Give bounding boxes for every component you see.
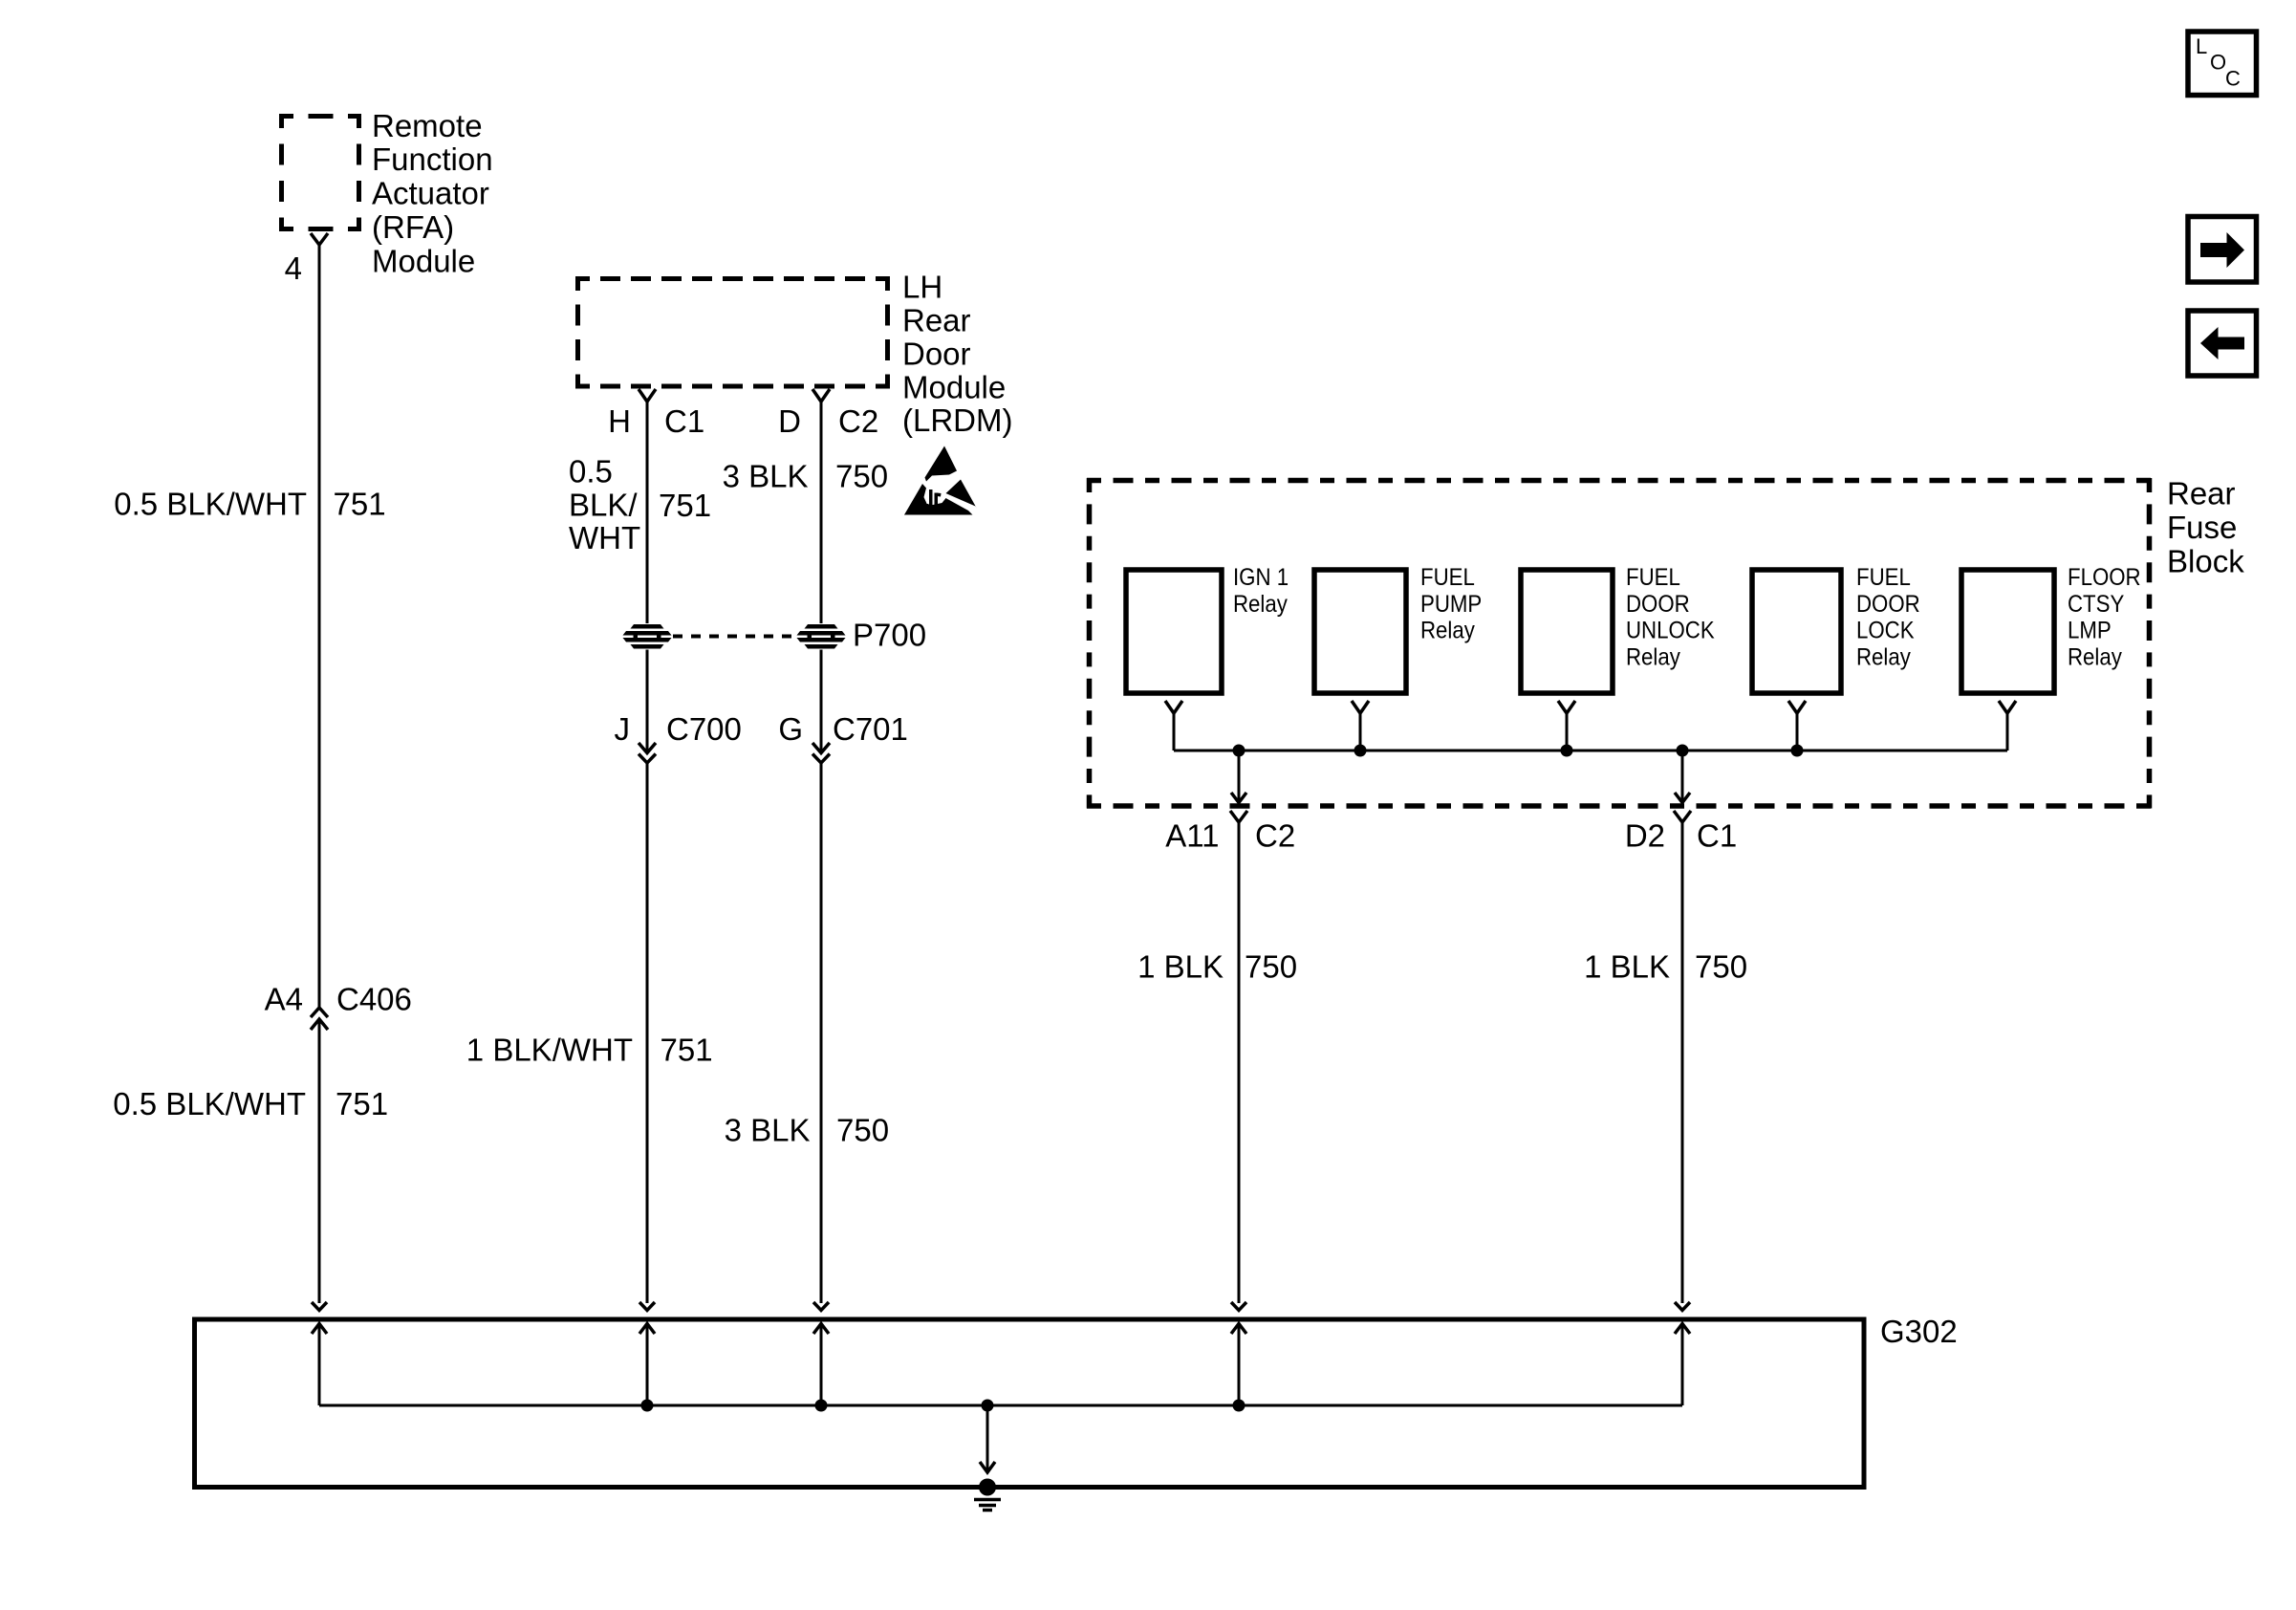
FLOOR CTSY LMP Relay label xyxy=(2068,565,2141,671)
svg-text:C2: C2 xyxy=(1255,818,1295,854)
svg-text:Relay: Relay xyxy=(1626,644,1680,670)
relay box FUEL DOOR UNLOCK xyxy=(1521,570,1613,693)
svg-text:D: D xyxy=(778,403,801,439)
forward arrow xyxy=(2200,232,2244,268)
svg-text:751: 751 xyxy=(336,1086,388,1121)
connector Y at LRDM pin D xyxy=(812,389,830,402)
svg-text:750: 750 xyxy=(835,459,888,494)
svg-text:C2: C2 xyxy=(838,403,878,439)
connector C406 inline: lower half arrow xyxy=(311,1019,328,1030)
svg-text:751: 751 xyxy=(659,488,711,523)
junction dot fuel door unlock xyxy=(1561,745,1573,757)
G302 internal riser 2 with up arrow xyxy=(646,1323,649,1405)
junction dot A11 drop xyxy=(1233,745,1245,757)
connector C700 inline: arrow down xyxy=(639,743,656,753)
LRDM label xyxy=(902,270,1012,439)
svg-text:D2: D2 xyxy=(1625,818,1665,854)
IGN 1 Relay label xyxy=(1233,565,1289,618)
svg-text:Relay: Relay xyxy=(1233,592,1288,618)
FUEL DOOR UNLOCK Relay label xyxy=(1626,565,1715,671)
svg-text:G: G xyxy=(778,711,803,747)
svg-text:1 BLK: 1 BLK xyxy=(1584,949,1670,985)
connector C700 inline: Y lower xyxy=(639,754,656,764)
svg-text:Door: Door xyxy=(902,336,971,371)
stem wire xyxy=(2006,713,2009,751)
junction dot fuel pump xyxy=(1354,745,1367,757)
ground drop wire with arrow xyxy=(986,1405,989,1472)
stem wire xyxy=(1796,713,1799,751)
svg-text:LH: LH xyxy=(902,270,942,305)
svg-text:750: 750 xyxy=(1245,949,1297,985)
G302 internal bus xyxy=(319,1404,1682,1407)
back arrow xyxy=(2200,327,2244,359)
junction dot D2 drop xyxy=(1677,745,1689,757)
svg-text:L: L xyxy=(2196,34,2207,58)
junction dot ground drop xyxy=(982,1400,994,1412)
G302 internal riser 4 with up arrow xyxy=(1238,1323,1241,1405)
connector Y at LRDM pin H xyxy=(639,389,656,402)
svg-text:Remote: Remote xyxy=(372,108,483,143)
svg-text:0.5 BLK/WHT: 0.5 BLK/WHT xyxy=(113,1086,306,1121)
svg-text:750: 750 xyxy=(836,1113,889,1148)
svg-text:C700: C700 xyxy=(666,711,742,747)
relay pin Y FUEL DOOR LOCK xyxy=(1788,701,1806,713)
svg-text:UNLOCK: UNLOCK xyxy=(1626,618,1715,643)
svg-text:Rear: Rear xyxy=(902,303,971,338)
G302 entry chevron wire 750 A11 xyxy=(1231,1302,1246,1311)
dashed link between grommets xyxy=(673,635,797,639)
svg-text:H: H xyxy=(608,403,631,439)
relay pin Y FLOOR CTSY LMP xyxy=(1999,701,2016,713)
wire 750 from D2 xyxy=(1681,822,1684,1303)
LOC icon box xyxy=(2188,32,2257,96)
svg-text:1 BLK: 1 BLK xyxy=(1137,949,1224,985)
LOC letters xyxy=(2196,34,2241,91)
svg-text:C1: C1 xyxy=(664,403,704,439)
svg-text:A4: A4 xyxy=(265,982,303,1017)
G302 internal riser 3 with up arrow xyxy=(820,1323,823,1405)
connector C701 inline: Y lower xyxy=(812,754,830,764)
svg-text:DOOR: DOOR xyxy=(1626,592,1690,618)
relay box IGN 1 xyxy=(1126,570,1222,693)
svg-text:WHT: WHT xyxy=(569,520,640,555)
svg-text:(LRDM): (LRDM) xyxy=(902,402,1012,438)
RFA module label xyxy=(372,108,493,279)
G302 entry chevron wire 751 LRDM xyxy=(639,1302,655,1311)
G302 internal riser 1 with up arrow xyxy=(318,1323,321,1405)
ground bus inside fuse block xyxy=(1174,750,2007,752)
svg-text:0.5: 0.5 xyxy=(569,454,613,490)
svg-text:A11: A11 xyxy=(1165,818,1219,854)
svg-text:C: C xyxy=(2225,67,2241,91)
svg-text:Rear: Rear xyxy=(2167,476,2236,511)
G302 ground box xyxy=(195,1319,1865,1488)
G302 entry chevron wire 751 RFA xyxy=(312,1302,327,1311)
Rear Fuse Block dashed box xyxy=(1087,478,2152,809)
G302 entry chevron wire 750 D2 xyxy=(1675,1302,1690,1311)
wire 750 from A11 xyxy=(1238,822,1241,1303)
connector C701 inline: arrow down xyxy=(812,743,830,753)
junction dot riser 3 xyxy=(815,1400,828,1412)
FUEL PUMP Relay label xyxy=(1420,565,1482,644)
svg-text:FUEL: FUEL xyxy=(1420,565,1475,591)
drop wire to D2 with arrow xyxy=(1681,751,1684,802)
drop wire to A11 with arrow xyxy=(1238,751,1241,802)
svg-text:1 BLK/WHT: 1 BLK/WHT xyxy=(466,1033,633,1068)
wire 750 below C701 xyxy=(820,763,823,1303)
svg-text:Module: Module xyxy=(372,243,475,278)
svg-text:PUMP: PUMP xyxy=(1420,592,1482,618)
svg-text:Module: Module xyxy=(902,369,1006,404)
svg-text:Relay: Relay xyxy=(1420,618,1475,643)
connector Y at RFA pin 4 xyxy=(311,233,328,245)
svg-text:751: 751 xyxy=(661,1033,713,1068)
junction dot riser 2 xyxy=(641,1400,654,1412)
FUEL DOOR LOCK Relay label xyxy=(1856,565,1920,671)
svg-text:3 BLK: 3 BLK xyxy=(725,1113,811,1148)
relay box FUEL PUMP xyxy=(1314,570,1406,693)
relay pin Y FUEL DOOR UNLOCK xyxy=(1558,701,1575,713)
svg-text:G302: G302 xyxy=(1880,1314,1958,1349)
relay box FLOOR CTSY LMP xyxy=(1961,570,2054,693)
svg-text:4: 4 xyxy=(285,250,302,286)
back arrow icon box xyxy=(2188,311,2257,376)
svg-text:C701: C701 xyxy=(833,711,908,747)
grommet P700 right xyxy=(797,623,846,650)
wire 751 from RFA pin 4 xyxy=(318,245,321,1009)
svg-text:3 BLK: 3 BLK xyxy=(723,459,809,494)
G302 internal riser 5 with up arrow xyxy=(1681,1323,1684,1405)
Rear Fuse Block label xyxy=(2167,476,2244,579)
forward arrow icon box xyxy=(2188,217,2257,283)
svg-text:Function: Function xyxy=(372,141,493,177)
svg-text:C1: C1 xyxy=(1697,818,1737,854)
connector C406 inline: upper half Y xyxy=(311,1008,328,1017)
ESD sensitive symbol xyxy=(904,446,977,515)
earth ground hatch xyxy=(974,1500,1001,1511)
relay pin Y FUEL PUMP xyxy=(1352,701,1369,713)
connector Y below fuse block A11 xyxy=(1230,811,1247,822)
svg-text:LMP: LMP xyxy=(2068,618,2112,643)
svg-text:Actuator: Actuator xyxy=(372,176,489,211)
svg-text:0.5 BLK/WHT: 0.5 BLK/WHT xyxy=(114,487,307,522)
svg-text:J: J xyxy=(615,711,631,747)
stem wire xyxy=(1359,713,1362,751)
LRDM dashed box xyxy=(575,276,890,389)
wire 751 from LRDM H xyxy=(646,402,649,753)
G302 entry chevron wire 750 LRDM xyxy=(813,1302,829,1311)
svg-text:Fuse: Fuse xyxy=(2167,510,2237,545)
svg-text:FUEL: FUEL xyxy=(1856,565,1911,591)
RFA module dashed box xyxy=(279,114,361,231)
relay pin Y IGN 1 xyxy=(1165,701,1182,713)
svg-text:750: 750 xyxy=(1695,949,1747,985)
svg-text:C406: C406 xyxy=(336,982,412,1017)
svg-text:Relay: Relay xyxy=(1856,644,1911,670)
svg-text:IGN 1: IGN 1 xyxy=(1233,565,1289,591)
svg-text:Relay: Relay xyxy=(2068,644,2122,670)
svg-text:(RFA): (RFA) xyxy=(372,209,454,245)
svg-text:LOCK: LOCK xyxy=(1856,618,1915,643)
connector Y below fuse block D2 xyxy=(1674,811,1691,822)
grommet P700 left xyxy=(623,623,672,650)
svg-text:FLOOR: FLOOR xyxy=(2068,565,2141,591)
ground terminal G302 xyxy=(979,1479,996,1496)
svg-text:BLK/: BLK/ xyxy=(569,487,638,522)
label 0.5 BLK/ WHT 751 xyxy=(569,454,711,556)
svg-text:CTSY: CTSY xyxy=(2068,592,2125,618)
wire 751 below C406 xyxy=(318,1019,321,1303)
svg-text:O: O xyxy=(2210,51,2226,75)
wire 750 from LRDM D xyxy=(820,402,823,753)
junction dot fuel door lock xyxy=(1791,745,1804,757)
stem wire xyxy=(1173,713,1176,751)
svg-text:P700: P700 xyxy=(853,618,926,653)
junction dot riser 4 xyxy=(1233,1400,1245,1412)
svg-text:751: 751 xyxy=(334,487,386,522)
svg-text:DOOR: DOOR xyxy=(1856,592,1920,618)
stem wire xyxy=(1566,713,1569,751)
wire 751 below C700 xyxy=(646,763,649,1303)
relay box FUEL DOOR LOCK xyxy=(1752,570,1841,693)
svg-text:Block: Block xyxy=(2167,543,2244,578)
svg-text:FUEL: FUEL xyxy=(1626,565,1680,591)
